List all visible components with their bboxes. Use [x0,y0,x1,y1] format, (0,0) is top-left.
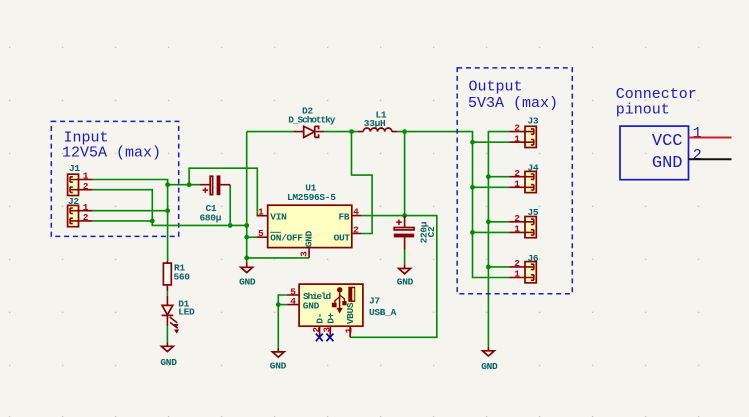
capacitor C2 [394,216,437,250]
svg-text:4: 4 [290,296,296,307]
svg-text:33µH: 33µH [364,118,386,129]
junction at switch node [349,129,354,134]
wire 5V to J5 pin1 [473,231,510,233]
svg-text:GND: GND [160,357,177,368]
junction at J5 pin1 branch [470,230,475,235]
wire L1 to output node and down to J6 pin1 [397,132,509,278]
junction at J6 pin2 branch [486,265,491,270]
svg-text:2: 2 [311,327,322,333]
connector J4 [510,162,539,192]
svg-text:pinout: pinout [616,102,670,119]
svg-text:3: 3 [299,251,310,257]
connector J3 [510,115,539,147]
pin 2 GND black lead [689,158,732,160]
svg-text:OUT: OUT [334,233,351,244]
svg-text:1: 1 [693,125,702,142]
svg-text:GND: GND [397,277,414,288]
no-connect X on J7 D- [316,334,323,342]
LED D1 [162,296,195,334]
input region dashed box [51,121,178,236]
svg-text:LED: LED [178,307,195,318]
junction at ON/OFF tap [244,235,249,240]
svg-text:FB: FB [338,211,349,222]
junction at VIN over-route tap [187,182,192,187]
wire D1 cathode to ground [166,326,168,342]
svg-text:2: 2 [514,258,520,269]
svg-text:GND: GND [303,301,320,312]
input title text [62,130,161,162]
junction at J3 pin1 branch [470,140,475,145]
wire GND to J6 pin2 [488,266,509,268]
svg-text:J3: J3 [528,115,539,126]
svg-text:ON/OFF: ON/OFF [270,232,303,243]
svg-text:J7: J7 [369,295,380,306]
connector pinout box [620,126,689,180]
junction at J7 ground tie [276,302,281,307]
svg-text:VBUS: VBUS [345,302,356,324]
wire GND to U1 ON/OFF [247,236,257,238]
svg-text:5V3A (max): 5V3A (max) [468,95,558,112]
wire GND J2 pin2 [93,220,153,222]
wire GND to D2 anode [247,131,294,133]
junction at FB node [402,213,407,218]
svg-text:J5: J5 [528,207,539,218]
svg-text:1: 1 [344,327,355,333]
wire output node down to FB node [404,132,406,216]
junction at C1 negative GND bus [228,223,233,228]
wire J7 GND pin tie [278,304,287,306]
svg-text:D_Schottky: D_Schottky [288,115,335,126]
junction at 5V output node [402,129,407,134]
svg-text:J6: J6 [528,253,539,264]
wire R1 to D1 [166,291,168,295]
pin 1 VCC red lead [689,137,732,139]
wire GND to J4 pin2 [488,176,509,178]
connector J6 [510,253,539,283]
wire C2 negative to ground [404,250,406,265]
wire +12V over-route to U1 VIN [189,168,257,216]
svg-text:2: 2 [353,224,359,235]
svg-text:D-: D- [315,313,326,324]
wire +12V rail to C1 positive [168,184,200,186]
svg-text:2: 2 [514,168,520,179]
svg-text:2: 2 [514,123,520,134]
connector J1 [68,163,93,196]
USB connector J7 [287,284,397,337]
svg-text:680µ: 680µ [200,212,222,223]
ground below C2 [397,264,414,287]
junction at J4 pin1 branch [470,185,475,190]
svg-text:J4: J4 [528,162,539,173]
svg-text:1: 1 [514,178,520,189]
connector pinout title text [616,86,697,118]
no-connect X on J7 D+ [326,334,333,342]
svg-text:GND: GND [270,360,287,371]
svg-text:3: 3 [322,327,333,333]
diode D2 [288,106,335,138]
wire D2 cathode to switch node [324,131,358,133]
wire U1 FB to node and down to USB VBUS [350,216,437,338]
svg-text:VCC: VCC [652,132,683,151]
svg-text:LM2596S-5: LM2596S-5 [287,192,336,203]
wire +12V J2 pin1 [93,210,168,212]
wire GND to J5 pin2 [488,221,509,223]
junction at +12V rail C1 tap [165,182,170,187]
ground below U1 [239,262,256,287]
svg-text:GND: GND [481,361,498,372]
junction at J2 pin2 tap [150,219,155,224]
wire 5V to J4 pin1 [473,186,510,188]
resistor R1 [163,261,190,292]
junction at J2 pin1 tap [165,208,170,213]
junction at U1 pin3 tap [244,256,249,261]
wire 5V to J3 pin1 [473,141,510,143]
svg-text:2: 2 [693,147,702,164]
svg-text:2: 2 [83,181,89,192]
junction at J4 pin2 branch [486,174,491,179]
svg-text:1: 1 [514,224,520,235]
output region dashed box [457,68,572,294]
svg-text:C2: C2 [426,226,437,237]
wire GND vertical D2 anode to ground [246,132,248,263]
svg-text:5: 5 [258,228,264,239]
svg-text:12V5A (max): 12V5A (max) [62,144,161,161]
svg-text:2: 2 [514,213,520,224]
wire GND to U1 pin3 [247,257,309,259]
connector J2 [68,196,93,227]
ground below output connectors [481,347,498,372]
svg-text:560: 560 [174,271,191,282]
inductor L1 [358,110,397,132]
ground below J7 [270,348,287,371]
capacitor C1 [200,175,231,223]
svg-text:Output: Output [469,78,523,95]
svg-text:J1: J1 [69,163,80,174]
svg-text:GND: GND [239,277,256,288]
svg-text:1: 1 [514,269,520,280]
svg-text:GND: GND [303,230,314,247]
wire GND J1 pin2 down to GND bus [93,190,247,226]
junction at GND bus corner [244,223,249,228]
wire switch node to U1 OUT [352,132,373,234]
svg-text:D+: D+ [325,312,336,323]
USB icon inside J7 [332,287,355,314]
op-amp U1 regulator LM2596S-5 [257,183,361,258]
svg-text:2: 2 [83,212,89,223]
wire J7 shield tie [278,295,287,348]
svg-text:GND: GND [652,154,683,173]
wire GND bus of output connectors [488,132,509,347]
output title text [468,78,558,112]
svg-text:1: 1 [258,207,264,218]
wire C1 negative down to GND bus [229,185,231,226]
wire +12V J1 pin1 to rail and down to R1 [93,180,168,261]
svg-text:J2: J2 [68,196,79,207]
svg-text:4: 4 [353,207,359,218]
svg-text:USB_A: USB_A [369,307,397,318]
connector J5 [510,207,539,238]
svg-text:VIN: VIN [270,211,287,222]
ground below D1 [160,342,177,367]
junction at J5 pin2 branch [486,219,491,224]
svg-text:1: 1 [514,133,520,144]
